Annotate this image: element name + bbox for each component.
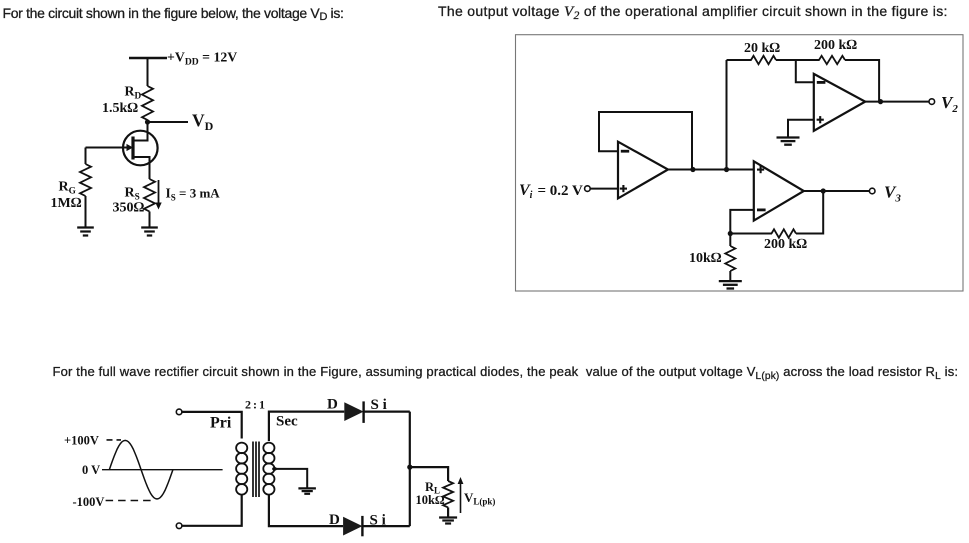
wire right rail (409, 412, 411, 526)
node U1 feedback junction (690, 167, 695, 172)
label Si top (371, 397, 387, 413)
arrow VL(pk) (458, 477, 464, 513)
resistor R3 200k (772, 229, 797, 237)
question text 1 (3, 6, 344, 20)
node load junction (407, 465, 412, 470)
wire U3- to feedback node (730, 210, 754, 234)
resistor R4 10k (725, 246, 735, 271)
wire node up to 20k (726, 60, 728, 170)
op-amp U3 (754, 161, 804, 220)
label D bottom (329, 512, 340, 528)
label 20 kOhm (744, 41, 780, 56)
svg-text:RD: RD (125, 84, 142, 102)
question text 2 (438, 4, 948, 20)
wire VDD supply rail (129, 57, 167, 60)
terminal V3 (869, 188, 875, 194)
ground R4 (719, 281, 742, 288)
ground RG (77, 228, 94, 236)
wire Vi to U1+ (590, 188, 618, 190)
node U2 output (878, 99, 883, 104)
waveform sine (109, 440, 173, 499)
label Si bottom (370, 513, 386, 529)
transformer secondary winding (263, 443, 274, 495)
wire D2 to right rail (362, 525, 409, 527)
op-amp U2 (814, 74, 865, 131)
wire VDD to RD (147, 58, 149, 86)
label RL (425, 480, 440, 496)
label IS = 3mA (166, 186, 221, 203)
ground center tap (298, 488, 316, 493)
terminal Vi (585, 186, 591, 192)
label Sec (276, 414, 298, 430)
wire primary bottom (182, 494, 242, 526)
label +VDD = 12V (167, 50, 237, 68)
wire gate to RG (85, 148, 87, 165)
ground RL (439, 518, 457, 524)
label RL value 10k (416, 493, 445, 507)
resistor R1 20k (751, 56, 776, 64)
diode D2 bottom (343, 516, 362, 536)
label 2:1 (245, 398, 265, 412)
label VD (192, 111, 214, 134)
wire D1 to right rail (364, 411, 410, 413)
svg-text:Pri: Pri (210, 415, 232, 432)
node drain VD (145, 119, 150, 124)
svg-text:2 : 1: 2 : 1 (245, 398, 265, 412)
svg-text:200 kΩ: 200 kΩ (764, 237, 807, 252)
svg-text:VD: VD (192, 111, 214, 134)
transformer core (253, 442, 259, 498)
wire U1 feedback loop (599, 112, 692, 168)
wire VD tap (148, 121, 189, 123)
svg-text:1MΩ: 1MΩ (51, 196, 82, 211)
wire 200k to U3 output (796, 191, 823, 234)
svg-text:Vi: Vi (519, 182, 533, 201)
wire 10k to ground (729, 271, 731, 281)
wire U2 output (865, 101, 929, 103)
resistor RG (80, 164, 91, 196)
svg-text:Sec: Sec (276, 414, 298, 430)
label Pri (210, 415, 232, 432)
svg-text:1.5kΩ: 1.5kΩ (102, 101, 138, 116)
svg-text:200 kΩ: 200 kΩ (814, 38, 857, 53)
diode D1 top (344, 401, 363, 423)
wire feedback left (730, 233, 772, 235)
resistor RD (142, 86, 153, 120)
svg-text:V3: V3 (884, 183, 901, 205)
wire to U2 inverting input (796, 60, 814, 82)
label Vi = 0.2V (519, 182, 583, 201)
question text 3 (53, 365, 959, 378)
dash +100V (107, 439, 122, 441)
label 200 kOhm top (814, 38, 857, 53)
label 200 kOhm bottom (764, 237, 807, 252)
label D top (327, 397, 338, 413)
svg-text:VL(pk): VL(pk) (464, 490, 495, 507)
wire U3 output (804, 190, 870, 192)
wire U2+ to ground (788, 120, 814, 138)
svg-text:350Ω: 350Ω (113, 201, 145, 216)
label RD value 1.5k (102, 101, 138, 116)
current arrow IS (155, 180, 161, 210)
svg-text:10kΩ: 10kΩ (689, 251, 722, 266)
transformer primary winding (236, 443, 247, 495)
label RS (125, 186, 140, 203)
node U3 output (821, 188, 826, 193)
label RG value 1M (51, 196, 82, 211)
svg-text:0 V: 0 V (82, 463, 100, 477)
terminal primary bottom (176, 523, 182, 529)
wire between 20k and 200k (776, 59, 820, 61)
label RD (125, 84, 142, 102)
svg-text:= 0.2 V: = 0.2 V (538, 183, 584, 199)
node main junction (724, 167, 729, 172)
resistor RL (443, 481, 453, 507)
label RS value 350 (113, 201, 145, 216)
frame op-amp figure box (516, 35, 964, 291)
terminal primary top (176, 409, 182, 415)
wire top rail left (727, 59, 752, 61)
svg-text:RG: RG (59, 180, 76, 197)
wire secondary top (269, 412, 344, 441)
wire RG to ground (85, 196, 87, 227)
svg-text:10kΩ: 10kΩ (416, 493, 445, 507)
wire RS to ground (149, 212, 151, 228)
ground U2 (777, 138, 800, 145)
svg-text:+VDD = 12V: +VDD = 12V (167, 50, 237, 68)
wire RD to drain node (147, 120, 149, 134)
node U3 feedback (728, 231, 733, 236)
svg-text:-100V: -100V (73, 495, 105, 509)
label V2 (941, 93, 958, 115)
label V3 (884, 183, 901, 205)
label RG (59, 180, 76, 197)
resistor R2 200k (819, 56, 845, 64)
dash -100V (106, 500, 152, 502)
resistor RS (144, 179, 155, 212)
ground RS (141, 228, 158, 236)
axis 0V line (102, 469, 223, 471)
transistor Q1 JFET (86, 131, 158, 179)
label +100V (64, 434, 99, 448)
svg-text:D: D (329, 512, 340, 528)
svg-text:D: D (327, 397, 338, 413)
svg-text:IS = 3 mA: IS = 3 mA (166, 186, 221, 203)
terminal V2 (929, 99, 935, 105)
label 0V (82, 463, 100, 477)
label -100V (73, 495, 105, 509)
center tap (272, 467, 307, 488)
svg-text:V2: V2 (941, 93, 958, 115)
label 10kOhm (689, 251, 722, 266)
wire secondary bottom (269, 494, 343, 526)
wire 200k to U2 output (845, 60, 879, 102)
label VL(pk) (464, 490, 495, 507)
svg-text:+100V: +100V (64, 434, 99, 448)
svg-text:20 kΩ: 20 kΩ (744, 41, 780, 56)
wire node to 10k (729, 234, 731, 247)
op-amp U1 buffer (618, 142, 668, 199)
wire to RL (410, 467, 448, 481)
wire U1 output (668, 169, 754, 171)
wire primary top (182, 412, 242, 439)
wire RL to ground (447, 507, 449, 517)
